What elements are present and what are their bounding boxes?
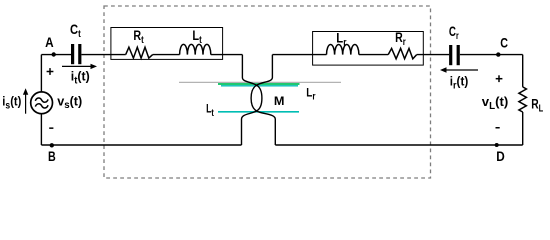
- label Rr: [395, 30, 406, 48]
- arrow it: [62, 64, 97, 69]
- label Cr: [449, 23, 459, 41]
- plus left: [47, 68, 54, 75]
- left vertical wire upper: [40, 55, 42, 92]
- wire Rr to Cr: [417, 54, 450, 56]
- svg-text:A: A: [45, 35, 54, 50]
- node D dot: [495, 143, 499, 147]
- wire coil to Lr box: [272, 54, 326, 56]
- label Lr coil: [306, 87, 316, 102]
- label C: [500, 35, 508, 50]
- label RL: [531, 96, 544, 114]
- wire Cr to corner C: [460, 54, 523, 56]
- label is(t): [2, 94, 21, 111]
- label M: [274, 94, 285, 108]
- label Rt: [133, 28, 143, 46]
- wire Ct to Rt: [82, 54, 126, 56]
- plus right: [496, 75, 503, 82]
- wire top-left: [41, 54, 71, 56]
- left vertical wire lower: [40, 114, 42, 145]
- minus left: [49, 127, 53, 128]
- capacitor Cr: [449, 45, 452, 65]
- arrow ir: [440, 67, 478, 72]
- wire right vertical top: [522, 55, 524, 87]
- inductor Lt: [180, 44, 211, 54]
- capacitor Ct: [71, 44, 74, 64]
- resistor Rt: [126, 47, 153, 58]
- transmitter loop conductor: [242, 55, 262, 145]
- resistor RL: [519, 87, 527, 112]
- source vs circle: [31, 92, 53, 114]
- label Ct: [70, 22, 81, 39]
- label D: [496, 149, 505, 164]
- label B: [48, 149, 56, 164]
- label Lr box: [336, 31, 347, 48]
- wire Lr to Rr: [359, 54, 388, 56]
- label ir(t): [450, 74, 468, 92]
- svg-text:D: D: [496, 149, 505, 164]
- coil Lr green bar: [218, 83, 300, 85]
- bottom wire right: [275, 144, 522, 146]
- gray reference line: [179, 81, 341, 83]
- wire Rt to Lt: [153, 54, 180, 56]
- source tilde top: [35, 98, 48, 102]
- label A: [45, 35, 54, 50]
- box Lr Rr: [313, 32, 424, 66]
- wire right vertical bottom: [522, 112, 524, 145]
- box Rt Lt: [111, 28, 223, 60]
- label vs(t): [57, 93, 82, 111]
- receiver loop conductor: [251, 55, 275, 145]
- coil Lr teal bar: [221, 85, 298, 87]
- dashed boundary box: [104, 6, 431, 178]
- source tilde bottom: [35, 104, 48, 108]
- label it(t): [71, 69, 90, 86]
- node C dot: [496, 52, 500, 56]
- label vL(t): [482, 94, 509, 112]
- coil Lt teal bar: [218, 111, 299, 113]
- resistor Rr: [388, 48, 417, 58]
- label Lt coil: [206, 102, 214, 118]
- node A dot: [52, 52, 56, 56]
- svg-text:is(t): is(t): [2, 94, 21, 111]
- wire Lt to coil: [211, 54, 243, 56]
- svg-text:B: B: [48, 149, 56, 164]
- label Lt box: [192, 28, 201, 46]
- minus right: [496, 127, 500, 129]
- svg-text:C: C: [500, 35, 508, 50]
- svg-text:M: M: [274, 94, 285, 108]
- bottom wire left: [41, 144, 241, 146]
- arrow is: [23, 88, 28, 113]
- node B dot: [50, 143, 54, 147]
- inductor Lr: [327, 44, 359, 54]
